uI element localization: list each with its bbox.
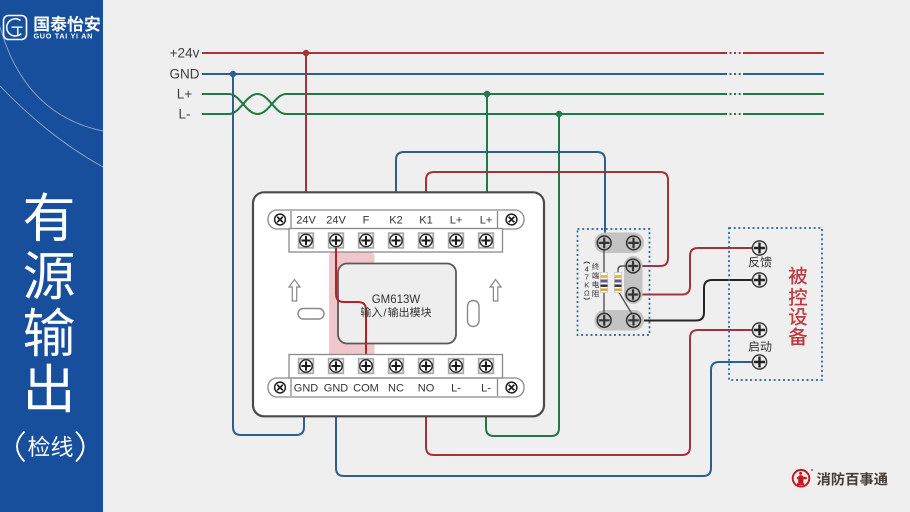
resistor block screw B [627, 236, 641, 250]
svg-text:GND: GND [324, 383, 349, 395]
L- bus [202, 113, 824, 115]
svg-text:NC: NC [388, 383, 404, 395]
label 启动 [748, 341, 771, 352]
terminal NC bottom [389, 359, 404, 374]
resistor label 终端电阻 [592, 263, 599, 297]
internal wire 24V to COM [336, 248, 366, 359]
terminal 24V top [299, 233, 314, 248]
sidebar panel [0, 0, 103, 512]
terminal 24V top [329, 233, 344, 248]
svg-text:NO: NO [418, 383, 435, 395]
terminal F top [359, 233, 374, 248]
bottom terminal label strip [268, 378, 524, 397]
svg-text:GND: GND [170, 67, 200, 82]
top strip mount screw right [506, 214, 517, 225]
label 反馈 [749, 256, 772, 267]
svg-text:K2: K2 [389, 215, 402, 227]
highlight band [329, 252, 375, 359]
svg-text:L-: L- [451, 383, 461, 395]
terminal K1 top [419, 233, 434, 248]
+24V bus [202, 52, 824, 54]
wire GND bus to GND terminal [233, 74, 304, 435]
resistor block screw D [626, 288, 640, 302]
top screw strip [289, 229, 503, 253]
sidebar subtitle (检线) [28, 436, 72, 457]
svg-text:L-: L- [481, 383, 491, 395]
footer logo mark [793, 469, 813, 486]
wire resistor block to feedback terminal [641, 248, 752, 295]
svg-text:+24v: +24v [170, 46, 200, 61]
wire L+ bus to L+ terminal [486, 94, 488, 193]
resistor block top bar [595, 233, 645, 254]
terminal COM bottom [359, 359, 374, 374]
top strip mount screw left [275, 214, 286, 225]
resistor block screw A [597, 236, 611, 250]
label 被控设备 [789, 266, 808, 345]
device screw start- [752, 355, 766, 369]
footer logo text 消防百事通 [817, 472, 888, 486]
bottom strip mount screw right [506, 382, 517, 393]
junction dot L+ [484, 91, 490, 97]
bottom terminal labels [294, 383, 491, 395]
wire K2 to resistor block [396, 152, 605, 238]
svg-text:L+: L+ [177, 87, 193, 102]
wire resistor block to device (black) [641, 280, 752, 321]
terminal L+ top [449, 233, 464, 248]
wire NO to start terminal [426, 330, 752, 455]
bottom strip mount screw left [275, 382, 286, 393]
terminal GND bottom [299, 359, 314, 374]
device screw feedback+ [752, 241, 766, 255]
wire L- bus to L- terminal [486, 114, 559, 436]
left slot [298, 309, 324, 320]
resistor block screw E [597, 313, 611, 327]
svg-text:L+: L+ [480, 215, 493, 227]
top terminal labels [296, 215, 492, 227]
svg-text:24V: 24V [326, 215, 346, 227]
module GM613W body [253, 192, 544, 416]
resistor block screw F [627, 313, 641, 327]
resistor body R2 [615, 273, 622, 293]
inner label plate [338, 264, 456, 344]
device screw start+ [752, 323, 766, 337]
terminal L- bottom [479, 359, 494, 374]
resistor lead wires [604, 244, 632, 321]
svg-text:GND: GND [294, 383, 319, 395]
resistor block dashed box [578, 229, 650, 335]
svg-text:L-: L- [178, 107, 190, 122]
resistor block bottom bar [595, 310, 645, 331]
resistor body R1 [601, 273, 608, 293]
device dashed box [729, 228, 822, 380]
svg-text:K1: K1 [419, 215, 432, 227]
svg-text:COM: COM [353, 383, 379, 395]
L+ bus with twisted pair [202, 94, 824, 114]
wire GND to start terminal [336, 362, 752, 476]
right arrow [490, 280, 501, 302]
svg-text:L+: L+ [450, 215, 463, 227]
company name 国泰怡安 [34, 16, 99, 32]
terminal GND bottom [329, 359, 344, 374]
sidebar title 有源输出 [25, 192, 75, 412]
company logo GT mark [4, 16, 27, 40]
model text chinese [361, 307, 382, 317]
svg-text:GUO TAI YI AN: GUO TAI YI AN [34, 32, 94, 41]
terminal L- bottom [449, 359, 464, 374]
svg-text:Ω: Ω [584, 289, 590, 298]
left arrow [289, 280, 300, 302]
bottom screw strip [289, 355, 503, 379]
svg-text:GM613W: GM613W [372, 294, 421, 306]
right slot [468, 301, 480, 327]
resistor value label 4.7K [584, 262, 590, 299]
svg-text:F: F [363, 215, 370, 227]
wire K1 to resistor block [426, 172, 668, 266]
resistor block right bar [624, 256, 643, 304]
top terminal label strip [268, 210, 524, 229]
resistor block screw C [626, 259, 640, 273]
terminal NO bottom [419, 359, 434, 374]
GND bus [202, 73, 824, 75]
wire +24V to 24V terminal [305, 53, 307, 193]
device screw feedback- [752, 273, 766, 287]
svg-text:24V: 24V [296, 215, 316, 227]
terminal K2 top [389, 233, 404, 248]
terminal L+ top [479, 233, 494, 248]
